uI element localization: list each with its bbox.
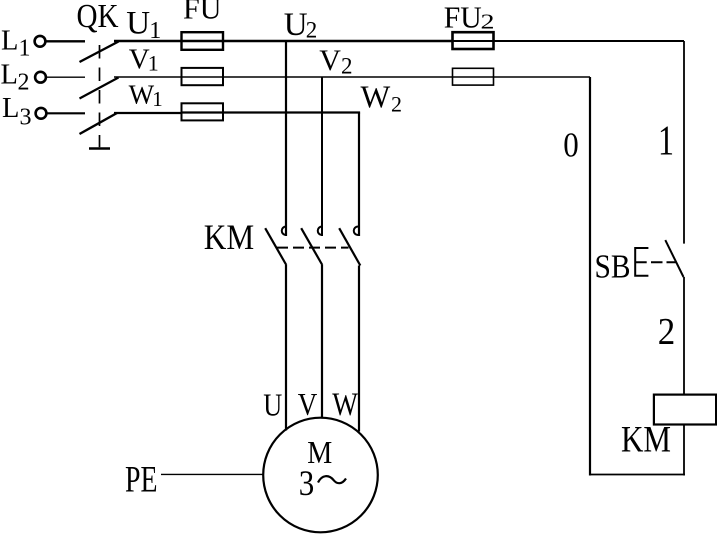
label QK (77, 0, 119, 35)
svg-text:2: 2 (306, 18, 318, 43)
wire FU to FU2 row 2 (223, 76, 453, 78)
svg-text:2: 2 (391, 92, 402, 117)
wire pole 3 to motor (358, 266, 360, 432)
wire V1 QK to FU (114, 76, 182, 78)
switch QK pole 2 blade (80, 78, 119, 99)
wire pole 2 to motor (321, 265, 323, 419)
contactor KM pole 1 fixed contact hook (282, 227, 286, 236)
label V1 (129, 43, 159, 75)
node L1 terminal (35, 36, 46, 47)
switch QK pole 3 blade (80, 113, 118, 134)
svg-text:V: V (298, 386, 318, 422)
wire bottom rail (589, 474, 685, 476)
wire FU to W2 corner (223, 111, 360, 113)
wire through fuse 1 (182, 40, 224, 42)
svg-text:1: 1 (152, 87, 163, 111)
wire through fuse 3 (182, 111, 224, 113)
node L2 terminal (35, 72, 46, 83)
svg-text:1: 1 (658, 119, 674, 165)
svg-text:PE: PE (125, 459, 158, 500)
label U1 (126, 6, 161, 44)
wire PE to motor (161, 473, 263, 475)
fuse FU pole 1 (182, 32, 224, 50)
fuse FU pole 3 (182, 103, 224, 120)
svg-text:3: 3 (20, 105, 32, 131)
svg-text:2: 2 (18, 70, 30, 96)
label L3 (2, 93, 32, 131)
svg-text:1: 1 (148, 51, 159, 76)
wire U1 QK to FU (114, 40, 182, 42)
contactor KM pole 3 fixed contact hook (354, 227, 358, 236)
wire W1 QK to FU (114, 112, 182, 114)
coil KM label (621, 420, 671, 461)
svg-text:FU: FU (183, 0, 222, 26)
switch QK linkage dashed line (99, 45, 101, 147)
wire FU2 to right rail row 1 (453, 40, 685, 42)
label V2 (319, 44, 352, 79)
wire L2 to QK (46, 76, 85, 78)
wire through fuse 2 (182, 76, 224, 78)
label L2 (1, 60, 30, 96)
svg-text:U: U (263, 388, 282, 423)
label U2 (284, 7, 318, 43)
fuse FU pole 2 (182, 68, 224, 85)
contactor KM pole 2 fixed contact hook (318, 227, 322, 236)
node L3 terminal (36, 108, 47, 119)
wire W2 vertical drop (358, 113, 360, 237)
svg-text:U: U (126, 6, 150, 42)
contactor KM pole 3 blade (339, 228, 360, 265)
svg-text:1: 1 (19, 36, 31, 62)
motor M circle (263, 418, 378, 533)
svg-text:KM: KM (204, 217, 254, 257)
label FU (183, 0, 222, 26)
ground bar of QK linkage (89, 147, 110, 150)
wire coil to bottom (683, 425, 685, 476)
pushbutton SB linkage dashes (651, 261, 676, 263)
wire rail 0 vertical (589, 77, 591, 476)
svg-text:U: U (284, 7, 308, 43)
motor label tilde (318, 476, 346, 483)
label U motor terminal (263, 388, 282, 423)
svg-text:W: W (361, 80, 391, 115)
svg-text:1: 1 (149, 18, 161, 44)
label 0 (563, 124, 579, 164)
svg-text:V: V (319, 44, 341, 77)
label L1 (1, 26, 31, 62)
svg-text:FU: FU (444, 0, 482, 34)
label W motor terminal (332, 387, 358, 423)
svg-text:KM: KM (621, 420, 671, 461)
pushbutton SB label (595, 248, 631, 285)
fuse FU2 pole 2 (453, 68, 494, 85)
pushbutton SB blade (665, 240, 683, 277)
wire FU to FU2 row 1 (223, 40, 453, 42)
svg-text:L: L (1, 60, 18, 91)
label FU2 (444, 0, 495, 34)
wire V2 vertical drop (321, 77, 323, 236)
wire L1 to QK (46, 40, 86, 42)
svg-text:V: V (129, 43, 150, 75)
fuse FU2 pole 1 (453, 32, 494, 49)
svg-text:L: L (2, 93, 19, 124)
svg-text:L: L (1, 26, 18, 57)
svg-text:2: 2 (341, 54, 353, 79)
svg-text:W: W (129, 80, 155, 110)
wire FU2 to rail 0 row 2 (453, 76, 591, 78)
motor label 3 (299, 463, 315, 503)
switch QK pole 1 blade (80, 42, 119, 63)
svg-text:SB: SB (595, 248, 631, 285)
svg-text:W: W (332, 387, 358, 423)
svg-text:2: 2 (658, 311, 676, 353)
svg-text:3: 3 (299, 463, 315, 503)
motor label M (307, 434, 332, 470)
wire rail 1 upper vertical (683, 41, 685, 244)
label V motor terminal (298, 386, 318, 422)
contactor KM linkage dashed line (277, 247, 349, 249)
label PE (125, 459, 158, 500)
svg-text:QK: QK (77, 0, 119, 35)
contactor KM pole 2 blade (301, 228, 322, 265)
wire rail 1 SB to coil (683, 277, 685, 395)
contactor KM label (204, 217, 254, 257)
label W2 (361, 80, 403, 117)
svg-text:0: 0 (563, 124, 579, 164)
contactor KM pole 1 blade (265, 228, 286, 265)
wire U2 vertical drop (285, 41, 287, 236)
coil KM rectangle (654, 395, 716, 425)
svg-text:2: 2 (481, 10, 495, 34)
wire pole 1 to motor (285, 265, 287, 431)
label 1 (658, 119, 674, 165)
wire L3 to QK (46, 112, 85, 114)
label W1 (129, 80, 163, 111)
pushbutton SB actuator bracket (635, 248, 648, 276)
label 2 (658, 311, 676, 353)
